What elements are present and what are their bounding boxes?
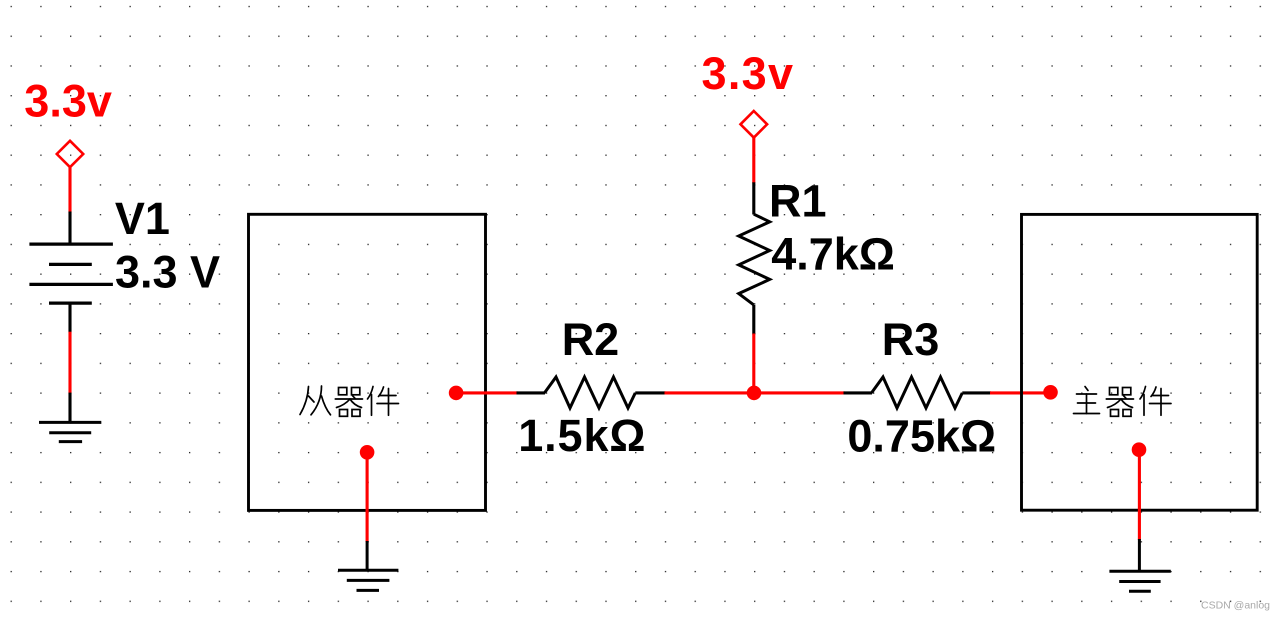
wire: top diamond to R1 (red part) bbox=[752, 138, 755, 184]
wire: slave pin to R2 (red part) bbox=[456, 391, 517, 394]
char 从 bbox=[300, 386, 331, 415]
battery V1 bbox=[29, 244, 113, 303]
wire: ground lead (black part) bbox=[366, 541, 369, 570]
resistor R3 bbox=[872, 377, 963, 408]
wire: V1 negative lead (black part) bbox=[68, 303, 71, 332]
wire: R3 right lead (black part) bbox=[962, 391, 991, 394]
junction node dot bbox=[747, 386, 762, 401]
wire: R1 top lead (black part) bbox=[752, 182, 755, 214]
ground symbol (under master box) bbox=[1109, 571, 1170, 591]
resistor R2 bbox=[545, 377, 636, 408]
wire: R1 bottom lead (black part) bbox=[752, 305, 755, 335]
svg-text:0.75kΩ: 0.75kΩ bbox=[847, 410, 996, 461]
wire: slave pin to ground (red part) bbox=[366, 452, 369, 542]
power terminal symbol (top diamond) bbox=[741, 111, 768, 138]
svg-text:R1: R1 bbox=[769, 176, 827, 227]
wire: ground lead (black part) bbox=[1138, 539, 1141, 571]
wire: R2 right lead (black part) bbox=[635, 391, 665, 394]
svg-text:3.3v: 3.3v bbox=[702, 48, 795, 99]
wire: R2 left lead (black part) bbox=[517, 391, 546, 394]
svg-text:R2: R2 bbox=[562, 314, 620, 365]
svg-text:V1: V1 bbox=[115, 193, 170, 244]
box: master device 主器件 bbox=[1022, 214, 1258, 510]
wire: R1 to junction (red part) bbox=[752, 334, 755, 393]
char 主 bbox=[1074, 387, 1100, 414]
pin dot: master SDA pin bbox=[1043, 385, 1058, 400]
wire: R3 to master pin (red part) bbox=[990, 391, 1051, 394]
svg-text:R3: R3 bbox=[882, 314, 940, 365]
ground symbol (under V1) bbox=[39, 422, 101, 441]
wire: junction to R3 (red part) bbox=[754, 391, 845, 394]
char 件 bbox=[1140, 387, 1171, 416]
svg-text:3.3v: 3.3v bbox=[24, 76, 112, 127]
ground symbol (under slave box) bbox=[338, 570, 398, 590]
svg-text:3.3 V: 3.3 V bbox=[115, 247, 220, 298]
pin dot: master ground pin bbox=[1132, 442, 1147, 457]
text 从器件 (drawn glyphs) bbox=[300, 386, 399, 416]
wire: ground lead (black part) bbox=[68, 393, 71, 423]
wire: R3 left lead (black part) bbox=[844, 391, 873, 394]
wire: V1 to ground (red part) bbox=[68, 332, 71, 394]
char 器 bbox=[1106, 388, 1133, 417]
pin dot: slave SDA pin bbox=[449, 386, 464, 401]
svg-text:CSDN @anlog: CSDN @anlog bbox=[1201, 600, 1270, 612]
wire: R2 to junction (red part) bbox=[665, 391, 755, 394]
svg-text:4.7kΩ: 4.7kΩ bbox=[771, 228, 895, 279]
char 器 bbox=[335, 388, 362, 417]
power terminal symbol (left diamond) bbox=[57, 141, 83, 167]
svg-text:1.5kΩ: 1.5kΩ bbox=[518, 410, 646, 461]
text 主器件 (drawn glyphs) bbox=[1074, 387, 1172, 417]
wire: master pin to ground (red part) bbox=[1138, 450, 1141, 540]
wire: V1 positive lead (black part) bbox=[68, 212, 71, 245]
box: slave device 从器件 bbox=[249, 214, 486, 510]
wire: diamond to V1 positive (red part) bbox=[68, 167, 71, 212]
resistor R1 (vertical) bbox=[739, 214, 770, 305]
char 件 bbox=[368, 387, 399, 416]
pin dot: slave ground pin bbox=[360, 445, 375, 460]
